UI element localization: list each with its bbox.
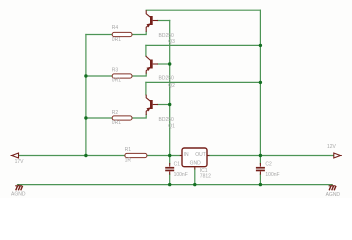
svg-text:100nF: 100nF	[174, 172, 188, 178]
resistor R3	[112, 67, 132, 83]
node rail2 / output column	[259, 44, 262, 47]
node rail3 / output column	[259, 81, 262, 84]
node left rail / R3	[84, 74, 87, 77]
svg-text:R4: R4	[112, 25, 119, 31]
wire left input rail x=85.5	[85, 35, 87, 156]
node 17V supply arrow	[11, 153, 25, 165]
svg-text:1R: 1R	[125, 158, 132, 164]
node left rail / 17V wire	[84, 154, 87, 157]
svg-text:12V: 12V	[327, 144, 337, 150]
resistor R4	[112, 25, 132, 43]
svg-text:AGND: AGND	[11, 191, 26, 197]
node C2 / ground rail	[259, 183, 262, 186]
capacitor C1	[165, 162, 188, 179]
wire base rail x=169.7	[169, 21, 171, 156]
wire output column x=260	[259, 10, 261, 155]
wire collector rail row3	[146, 81, 261, 83]
wire collector rail row2	[146, 44, 261, 46]
svg-text:GND: GND	[190, 160, 202, 166]
wire R3 row	[86, 75, 113, 77]
wire R2 row	[86, 117, 113, 119]
ground AGND right	[326, 185, 341, 199]
wire ground rail	[18, 184, 333, 186]
svg-text:0R1: 0R1	[112, 37, 121, 43]
transistor Q2 (BD250)	[146, 56, 175, 89]
node output column / 12V wire / C2	[259, 154, 262, 157]
node base rail / Q1 base	[168, 103, 171, 106]
node IC GND / ground rail	[193, 183, 196, 186]
svg-text:OUT: OUT	[195, 152, 206, 158]
node 12V output arrow	[327, 144, 342, 158]
wire C1 column	[169, 156, 171, 164]
wire Q2 collector drop	[145, 45, 147, 56]
wire IC GND drop	[194, 169, 196, 184]
svg-text:Q2: Q2	[168, 83, 175, 89]
svg-text:0R1: 0R1	[112, 78, 121, 84]
transistor Q3 (BD250)	[146, 10, 175, 45]
svg-text:R2: R2	[112, 110, 119, 116]
svg-text:C2: C2	[265, 162, 272, 168]
wire 17V input	[19, 155, 180, 157]
op-amp IC1 7812 regulator box	[180, 148, 211, 179]
svg-text:IN: IN	[184, 152, 189, 158]
node base rail / Q2 base	[168, 62, 171, 65]
wire IC output to 12V	[209, 155, 334, 157]
svg-text:100nF: 100nF	[265, 172, 279, 178]
wire R4 row	[86, 34, 113, 36]
svg-text:R3: R3	[112, 67, 119, 73]
wire Q1 collector drop	[145, 82, 147, 94]
wire Q1 base stub	[158, 104, 170, 106]
svg-text:BD250: BD250	[159, 33, 175, 39]
wire Q3 base stub	[158, 20, 170, 22]
wire C2 column	[259, 156, 261, 164]
svg-text:R1: R1	[125, 147, 132, 153]
wire collector rail row1	[146, 9, 260, 11]
svg-text:0R1: 0R1	[112, 120, 121, 126]
node C1 / ground rail	[168, 183, 171, 186]
svg-text:C1: C1	[174, 162, 181, 168]
svg-text:Q1: Q1	[168, 123, 175, 129]
resistor R2	[112, 110, 132, 126]
svg-text:Q3: Q3	[168, 39, 175, 45]
svg-text:BD250: BD250	[159, 76, 175, 82]
capacitor C2	[256, 162, 280, 179]
svg-text:17V: 17V	[15, 159, 25, 165]
resistor R1	[125, 147, 147, 164]
svg-text:BD250: BD250	[159, 117, 175, 123]
svg-text:7812: 7812	[200, 173, 211, 179]
node base rail / 17V wire / C1	[168, 154, 171, 157]
ground AGND left	[11, 185, 26, 198]
transistor Q1 (BD250)	[146, 95, 175, 130]
node left rail / R2	[84, 116, 87, 119]
wire Q2 base stub	[158, 63, 170, 65]
svg-text:AGND: AGND	[326, 192, 341, 198]
